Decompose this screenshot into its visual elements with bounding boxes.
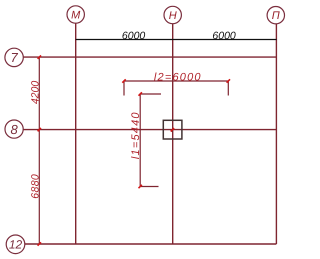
i1 dimension bracket: [140, 94, 161, 187]
grid bubble H: [164, 6, 181, 23]
tick at axis 12 / dim line: [38, 242, 41, 245]
svg-text:6000: 6000: [212, 30, 236, 42]
grid bubble M: [67, 6, 84, 23]
svg-text:12: 12: [9, 238, 23, 252]
left dimension line vertical: [38, 57, 40, 244]
top dimension line (black): [76, 39, 277, 41]
center tick of column: [171, 130, 173, 132]
axis M vertical line: [75, 23, 77, 244]
grid bubble 8: [5, 120, 23, 138]
tick at i2 right end: [227, 79, 230, 82]
grid bubble P: [267, 7, 284, 24]
svg-text:7: 7: [10, 50, 18, 65]
svg-text:Н: Н: [169, 10, 177, 22]
i2 dimension bracket: [124, 81, 228, 96]
svg-text:l1=5440: l1=5440: [130, 111, 142, 159]
axis P vertical line: [275, 24, 277, 244]
tick at i2 left end: [122, 79, 125, 82]
svg-text:l2=6000: l2=6000: [154, 72, 202, 84]
svg-text:4200: 4200: [30, 81, 42, 105]
svg-text:М: М: [71, 10, 81, 22]
tick at i1 bottom end: [139, 185, 142, 188]
column square: [163, 120, 182, 139]
grid bubble 12: [6, 235, 25, 254]
svg-text:6880: 6880: [30, 174, 42, 199]
axis 7 horizontal line: [23, 56, 276, 58]
svg-text:8: 8: [10, 122, 18, 137]
svg-text:П: П: [272, 10, 280, 22]
grid bubble 7: [5, 48, 23, 66]
tick at axis 8 / dim line: [38, 128, 41, 131]
tick at i1 top end: [139, 92, 142, 95]
axis H vertical line: [172, 24, 174, 244]
svg-text:6000: 6000: [122, 30, 146, 42]
tick at axis 7 / dim line: [38, 55, 41, 58]
axis 12 horizontal line: [25, 243, 277, 245]
axis 8 horizontal line: [23, 129, 276, 131]
